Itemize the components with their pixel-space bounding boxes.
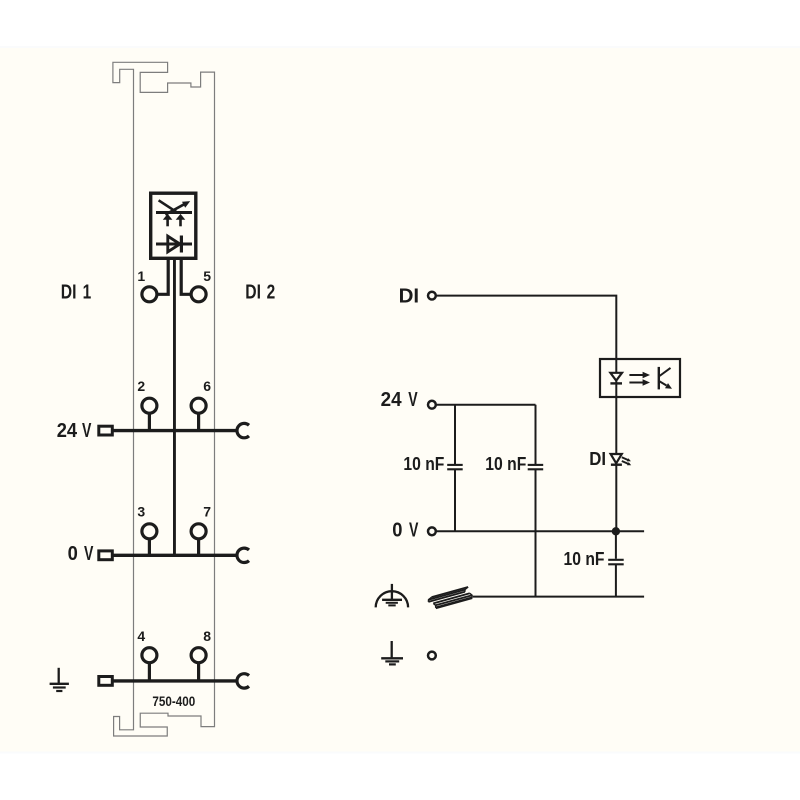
capacitor C2 top plate	[528, 464, 544, 466]
legend earth symbol	[391, 641, 393, 658]
optocoupler light arrow 1 head	[643, 372, 650, 378]
wire 24V rail right	[436, 404, 536, 406]
0V rail wire	[114, 554, 237, 557]
capacitor C3 bottom plate	[608, 563, 624, 565]
LED symbol top: left up-arrow shaft	[166, 219, 169, 226]
LED symbol top: diagonal arrow head	[182, 201, 190, 208]
earth symbol at module	[58, 668, 60, 684]
wire: box centre leg down to 0V rail	[173, 258, 176, 555]
wire 24V to capacitor C1	[454, 405, 456, 465]
optocoupler light arrow 2 head	[643, 379, 650, 385]
phototransistor Q1 collector	[659, 368, 671, 377]
optocoupler LED triangle	[610, 373, 622, 381]
24V terminal rectangle	[99, 426, 113, 435]
svg-text:5: 5	[203, 268, 211, 284]
module 750-400 body outline	[113, 62, 215, 736]
svg-text:0: 0	[68, 542, 78, 565]
contact 4	[142, 648, 157, 663]
svg-text:8: 8	[203, 628, 211, 644]
contact 2	[142, 398, 157, 413]
capacitor C2 bottom plate	[528, 468, 544, 470]
wire 24V to capacitor C2	[535, 405, 537, 465]
wire: stem contact 3 to 0V rail	[148, 539, 151, 556]
diode D1 in box: anode line	[156, 243, 192, 246]
svg-text:24: 24	[57, 419, 78, 442]
svg-text:10 nF: 10 nF	[564, 548, 605, 569]
svg-text:6: 6	[203, 378, 211, 394]
wire: stem contact 2 to 24V rail	[148, 413, 151, 431]
wire DI to optocoupler	[436, 296, 617, 359]
terminal 0V	[428, 527, 436, 535]
svg-text:1: 1	[83, 281, 92, 304]
contact 3	[142, 524, 157, 539]
LED symbol top: crossing diagonal	[159, 200, 177, 212]
noiseless earth symbol	[391, 584, 393, 600]
svg-text:DI: DI	[245, 281, 261, 304]
wire: stem contact 7 to 0V rail	[197, 539, 200, 556]
svg-text:DI: DI	[61, 281, 77, 304]
svg-text:7: 7	[203, 504, 211, 520]
svg-text:24: 24	[381, 388, 403, 411]
svg-text:V: V	[409, 519, 419, 542]
diode D1 cathode bar	[180, 236, 183, 253]
LED DI cathode bar	[611, 464, 622, 466]
wire: box left leg to contact 1	[157, 258, 168, 294]
optocoupler light arrow 2 shaft	[629, 382, 644, 384]
LED DI indicator triangle	[611, 454, 622, 463]
cage clamp opening row 24V	[237, 423, 249, 437]
DIN carrier rail icon	[428, 587, 472, 608]
contact 5	[191, 287, 206, 302]
wire: stem contact 4 to earth rail	[148, 663, 151, 681]
cage clamp opening row earth	[237, 674, 249, 688]
svg-text:V: V	[408, 388, 418, 411]
optocoupler light arrow 1 shaft	[629, 374, 644, 376]
wire capacitor C2 to earth rail	[535, 470, 537, 597]
svg-text:0: 0	[392, 519, 402, 542]
wire: stem contact 8 to earth rail	[197, 663, 200, 681]
cage clamp opening row 0V	[237, 548, 249, 562]
svg-text:2: 2	[267, 281, 276, 304]
optocoupler LED cathode bar	[610, 382, 622, 384]
node junction dot 0V	[612, 527, 620, 535]
legend terminal circle	[428, 652, 436, 660]
phototransistor Q1 base bar	[658, 367, 660, 390]
svg-text:1: 1	[137, 268, 145, 284]
LED DI emission arrow 2	[622, 461, 629, 464]
svg-text:750-400: 750-400	[152, 694, 195, 709]
svg-text:4: 4	[137, 628, 145, 644]
LED DI emission arrow 1	[622, 457, 628, 460]
wire capacitor C1 to 0V rail	[454, 470, 456, 531]
svg-text:DI: DI	[399, 284, 420, 307]
svg-text:DI: DI	[589, 448, 606, 469]
capacitor C1 bottom plate	[447, 468, 463, 470]
contact 7	[191, 524, 206, 539]
capacitor C1 top plate	[447, 464, 463, 466]
0V terminal rectangle	[99, 551, 113, 560]
0V rail wire	[436, 530, 644, 532]
svg-text:10 nF: 10 nF	[485, 453, 526, 474]
wire junction to capacitor C3	[615, 531, 617, 559]
svg-text:V: V	[84, 542, 94, 565]
contact 6	[191, 398, 206, 413]
svg-text:3: 3	[137, 504, 145, 520]
LED symbol top: horizontal bar	[156, 211, 192, 214]
svg-text:2: 2	[137, 378, 145, 394]
contact 1	[142, 287, 157, 302]
capacitor C3 top plate	[608, 559, 624, 561]
wire capacitor C3 to earth rail	[615, 565, 617, 597]
optocoupler U2 box	[600, 359, 680, 397]
LED symbol top: right up-arrow head	[176, 214, 186, 220]
phototransistor Q1 emitter arrow head	[665, 383, 672, 389]
contact 8	[191, 648, 206, 663]
earth rail wire	[114, 679, 237, 682]
wire through optocoupler down to 0V junction	[615, 359, 617, 531]
svg-text:10 nF: 10 nF	[403, 453, 444, 474]
LED symbol top: left up-arrow head	[163, 214, 173, 220]
wire: stem contact 6 to 24V rail	[197, 413, 200, 431]
LED symbol top: right up-arrow shaft	[179, 219, 182, 226]
earth rail wire	[473, 596, 644, 598]
svg-text:V: V	[82, 419, 92, 442]
terminal 24V	[428, 401, 436, 409]
diode D1 triangle	[168, 236, 180, 252]
24V rail wire	[114, 429, 237, 432]
wire: box right leg to contact 5	[181, 258, 190, 294]
terminal DI	[428, 292, 436, 300]
earth terminal rectangle	[99, 677, 113, 686]
LED symbol top: diagonal arrow shaft	[165, 204, 185, 215]
function box U1 (status LEDs)	[151, 193, 196, 258]
phototransistor Q1 emitter	[659, 381, 667, 386]
